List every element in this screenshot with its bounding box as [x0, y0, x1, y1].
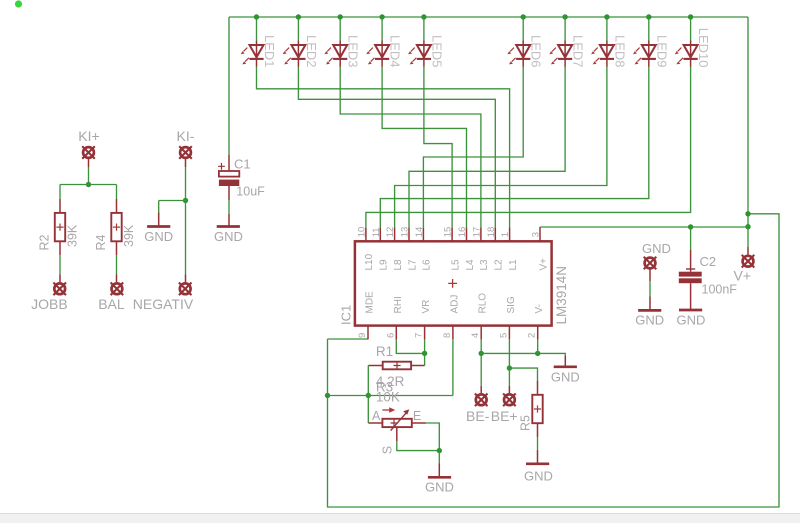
svg-text:L4: L4 — [465, 259, 476, 271]
pin 9 (MDE) stub — [367, 326, 369, 340]
resistor R4 39K — [116, 199, 118, 213]
pin 4 (RLO) stub — [480, 326, 482, 340]
junction trimmer gnd node — [437, 448, 442, 453]
svg-text:LED3: LED3 — [346, 35, 361, 68]
IC1 origin cross — [448, 279, 457, 288]
svg-text:5: 5 — [498, 333, 509, 338]
junction LED2 anode rail — [296, 14, 301, 19]
LED 8 (LED8) — [591, 41, 614, 67]
wire to R4 — [116, 185, 118, 200]
wire LED9 anode — [648, 17, 650, 41]
wire LED4 anode — [381, 17, 383, 41]
wire LED5 cathode to pin — [424, 67, 452, 228]
wire LED10 cathode to pin — [366, 67, 691, 228]
junction RLO node — [479, 351, 484, 356]
svg-text:SIG: SIG — [506, 296, 517, 313]
LED 9 (LED9) — [633, 41, 656, 67]
junction V+ horizontal — [745, 224, 750, 229]
wire split horizontal — [60, 184, 117, 186]
pin 17 (L3) stub — [480, 227, 482, 241]
LED 3 (LED3) — [324, 41, 347, 67]
wire LED2 cathode to pin — [298, 67, 495, 228]
LED 5 (LED5) — [408, 41, 431, 67]
wire MDE horizontal — [328, 338, 369, 340]
svg-text:C1: C1 — [234, 157, 251, 172]
junction LED7 anode rail — [562, 14, 567, 19]
wire trimmer S to gnd node — [397, 441, 440, 451]
svg-text:LED4: LED4 — [388, 35, 403, 68]
svg-text:R2: R2 — [38, 234, 52, 250]
svg-text:LED2: LED2 — [304, 35, 319, 68]
wire V- down — [537, 339, 539, 353]
pin 8 (ADJ) stub — [452, 326, 454, 340]
svg-text:JOBB: JOBB — [31, 296, 68, 312]
wire to R2 — [59, 185, 61, 200]
svg-text:13: 13 — [400, 227, 411, 238]
svg-text:L5: L5 — [450, 259, 461, 271]
resistor R5 — [537, 381, 539, 395]
wire R2 to JOBB — [59, 255, 61, 274]
junction KI- gnd tap — [183, 198, 188, 203]
junction LED4 anode rail — [379, 14, 384, 19]
svg-text:LED10: LED10 — [696, 28, 711, 68]
svg-text:L7: L7 — [407, 259, 418, 271]
svg-text:VR: VR — [421, 300, 432, 314]
junction LED5 anode rail — [421, 14, 426, 19]
svg-text:L6: L6 — [422, 259, 433, 271]
wire LED5 anode — [423, 17, 425, 41]
wire LED3 anode — [339, 17, 341, 41]
pad GND — [644, 257, 657, 270]
wire SIG to BE+ — [508, 368, 510, 386]
svg-text:ADJ: ADJ — [449, 295, 460, 314]
pad BAL — [116, 275, 118, 283]
svg-text:MDE: MDE — [365, 291, 376, 314]
svg-text:6: 6 — [385, 333, 396, 338]
svg-text:100nF: 100nF — [702, 283, 738, 297]
svg-text:L10: L10 — [364, 253, 375, 270]
junction V- node — [535, 351, 540, 356]
svg-text:1: 1 — [500, 232, 511, 237]
svg-text:39K: 39K — [66, 224, 80, 247]
junction LED6 anode rail — [521, 14, 526, 19]
pad KI- — [179, 146, 192, 159]
junction SIG node — [507, 365, 512, 370]
svg-text:LED1: LED1 — [262, 35, 277, 68]
LED 2 (LED2) — [283, 41, 306, 67]
svg-text:V+: V+ — [538, 258, 549, 271]
svg-text:17: 17 — [471, 227, 482, 238]
svg-text:L8: L8 — [393, 259, 404, 271]
pin 13 (L7) stub — [408, 227, 410, 241]
wire V+ rail right drop — [747, 17, 749, 247]
trimmer R3 10K — [368, 422, 426, 424]
pin 18 (L2) stub — [494, 227, 496, 241]
LED 7 (LED7) — [549, 41, 572, 67]
wire RLO to V- to gnd corner — [481, 353, 565, 356]
wire trimmer A — [367, 396, 369, 424]
svg-text:NEGATIV: NEGATIV — [133, 296, 194, 312]
svg-text:KI+: KI+ — [78, 128, 99, 144]
pin 12 (L8) stub — [394, 227, 396, 241]
pin 2 (V-) stub — [537, 326, 539, 340]
pad BE- — [480, 386, 482, 393]
wire VR down — [424, 339, 426, 353]
pin 3 (V+) stub — [539, 227, 541, 241]
pin 7 (VR) stub — [424, 326, 426, 340]
ground GND (V-) — [564, 356, 566, 367]
wire V+ branch to MDE loop — [328, 214, 780, 507]
junction V+ branch — [745, 211, 750, 216]
svg-text:3: 3 — [531, 232, 542, 237]
svg-text:15: 15 — [443, 227, 454, 238]
wire R5 to gnd — [537, 437, 539, 450]
ground GND (C1) — [228, 214, 230, 227]
svg-text:L1: L1 — [508, 259, 519, 271]
pin 14 (L6) stub — [422, 227, 424, 241]
svg-text:A: A — [372, 409, 381, 423]
pin 1 (L1) stub — [509, 227, 511, 241]
junction LED9 anode rail — [646, 14, 651, 19]
junction VR node — [422, 351, 427, 356]
resistor R1 4,2R — [368, 365, 424, 367]
junction R1-trimmer node — [366, 393, 371, 398]
junction ADJ-MDE node — [325, 393, 330, 398]
svg-text:GND: GND — [642, 241, 671, 256]
wire trimmer E to gnd node — [426, 423, 439, 451]
wire LED2 anode — [297, 17, 299, 41]
IC U IC1 LM3914N body — [355, 241, 552, 325]
svg-text:GND: GND — [524, 469, 553, 484]
svg-text:LED8: LED8 — [612, 35, 627, 68]
svg-text:18: 18 — [486, 227, 497, 238]
pin 16 (L4) stub — [466, 227, 468, 241]
wire LED6 cathode to pin — [423, 67, 523, 228]
wire LED8 anode — [606, 17, 608, 41]
svg-text:GND: GND — [551, 370, 580, 385]
pad JOBB — [59, 275, 61, 283]
bottom window strip — [0, 514, 800, 523]
wire LED8 cathode to pin — [395, 67, 607, 228]
svg-text:R5: R5 — [519, 415, 533, 431]
svg-text:LED6: LED6 — [529, 35, 544, 68]
svg-text:L2: L2 — [494, 259, 505, 271]
svg-text:GND: GND — [635, 313, 664, 328]
wire KI+ stub — [88, 159, 90, 168]
wire to gnd symbol — [159, 201, 186, 213]
wire R4 to BAL — [116, 255, 118, 274]
wire gnd pad stub — [649, 270, 651, 282]
svg-text:LED9: LED9 — [654, 35, 669, 68]
wire LED10 anode — [690, 17, 692, 41]
svg-text:BE+: BE+ — [491, 408, 518, 424]
svg-text:L9: L9 — [379, 259, 390, 271]
svg-text:GND: GND — [214, 229, 243, 244]
wire LED1 cathode to pin — [257, 67, 510, 228]
junction LED8 anode rail — [604, 14, 609, 19]
svg-text:KI-: KI- — [177, 128, 195, 144]
pin 11 (L9) stub — [379, 227, 381, 241]
junction LED1 anode rail — [254, 14, 259, 19]
svg-text:16: 16 — [457, 227, 468, 238]
svg-text:BE-: BE- — [466, 408, 490, 424]
svg-text:C2: C2 — [700, 254, 717, 269]
wire LED3 cathode to pin — [340, 67, 481, 228]
wire V+ rail left drop to C1 — [228, 17, 230, 155]
svg-text:E: E — [413, 409, 421, 423]
wire LED9 cathode to pin — [380, 67, 649, 228]
svg-text:BAL: BAL — [98, 296, 125, 312]
junction C2 tap — [688, 224, 693, 229]
svg-text:GND: GND — [144, 229, 173, 244]
pin 5 (SIG) stub — [508, 326, 510, 340]
wire SIG down — [508, 339, 510, 368]
svg-text:IC1: IC1 — [338, 305, 353, 325]
svg-text:V+: V+ — [733, 268, 751, 284]
pin 15 (L5) stub — [451, 227, 453, 241]
wire ADJ down — [452, 339, 454, 395]
svg-text:V-: V- — [534, 304, 545, 313]
wire LED7 anode — [564, 17, 566, 41]
LED 6 (LED6) — [507, 41, 530, 67]
ground GND (KI-) — [158, 213, 160, 227]
wire LED4 cathode to pin — [382, 67, 466, 228]
wire LED6 anode — [522, 17, 524, 41]
wire KI- stub — [185, 159, 187, 168]
wire ADJ horizontal — [328, 395, 453, 397]
ground GND (pad column) — [649, 297, 651, 311]
pad V+ — [742, 255, 755, 268]
svg-text:11: 11 — [371, 227, 382, 237]
ground GND (trimmer) — [438, 464, 440, 478]
pad KI+ — [82, 146, 95, 159]
svg-text:4: 4 — [470, 333, 481, 338]
svg-text:10uF: 10uF — [236, 184, 265, 198]
svg-text:GND: GND — [425, 480, 454, 495]
wire LED1 anode — [256, 17, 258, 41]
ground GND (R5) — [537, 450, 539, 464]
wire LED7 cathode to pin — [409, 67, 565, 228]
capacitor C2 100nF — [690, 227, 692, 250]
svg-text:GND: GND — [676, 313, 705, 328]
LED 4 (LED4) — [366, 41, 389, 67]
wire KI- to NEGATIV — [185, 201, 187, 275]
wire gnd pad down — [649, 281, 651, 297]
svg-text:10: 10 — [356, 227, 367, 238]
pad BE+ — [508, 386, 510, 393]
svg-text:2: 2 — [527, 333, 538, 338]
svg-text:LM3914N: LM3914N — [554, 266, 569, 325]
LED 10 (LED10) — [675, 41, 698, 67]
wire R1 right up — [424, 353, 426, 365]
svg-text:R1: R1 — [376, 344, 393, 359]
svg-text:RHI: RHI — [393, 296, 404, 313]
svg-text:10K: 10K — [376, 390, 400, 405]
svg-text:RLO: RLO — [478, 293, 489, 314]
svg-text:8: 8 — [442, 333, 453, 338]
svg-text:12: 12 — [385, 227, 396, 238]
wire V+ rail — [229, 16, 748, 18]
svg-text:14: 14 — [414, 227, 425, 238]
svg-text:7: 7 — [414, 333, 425, 338]
svg-text:S: S — [381, 446, 395, 454]
svg-text:LED7: LED7 — [571, 35, 586, 68]
svg-text:LED5: LED5 — [429, 35, 444, 68]
capacitor C1 10uF — [228, 155, 230, 171]
wire RLO down — [480, 339, 482, 353]
svg-text:R4: R4 — [94, 234, 108, 250]
junction LED10 anode rail — [688, 14, 693, 19]
pin 10 (L10) stub — [365, 227, 367, 241]
wire KI- down — [185, 167, 187, 201]
junction LED3 anode rail — [338, 14, 343, 19]
wire R1 left down — [367, 366, 369, 396]
wire RLO to BE- — [480, 353, 482, 385]
cursor mark (green dot) — [15, 0, 22, 7]
wire RHI to VR — [396, 339, 424, 353]
wire SIG to R5 — [509, 368, 537, 381]
wire down to gnd — [438, 451, 440, 464]
LED 1 (LED1) — [241, 41, 264, 67]
svg-text:9: 9 — [357, 333, 368, 338]
wire V+ pad stub — [747, 247, 749, 255]
ground GND (C2) — [679, 309, 702, 312]
pad NEGATIV — [185, 275, 187, 283]
wire C1 to gnd — [228, 200, 230, 214]
svg-text:39K: 39K — [122, 224, 136, 247]
wire KI+ to resistors — [88, 167, 90, 185]
wire pin3 V+ horizontal — [540, 226, 748, 228]
resistor R2 39K — [59, 199, 61, 213]
svg-text:L3: L3 — [479, 259, 490, 271]
junction KI+ split — [86, 182, 91, 187]
pin 6 (RHI) stub — [395, 326, 397, 340]
